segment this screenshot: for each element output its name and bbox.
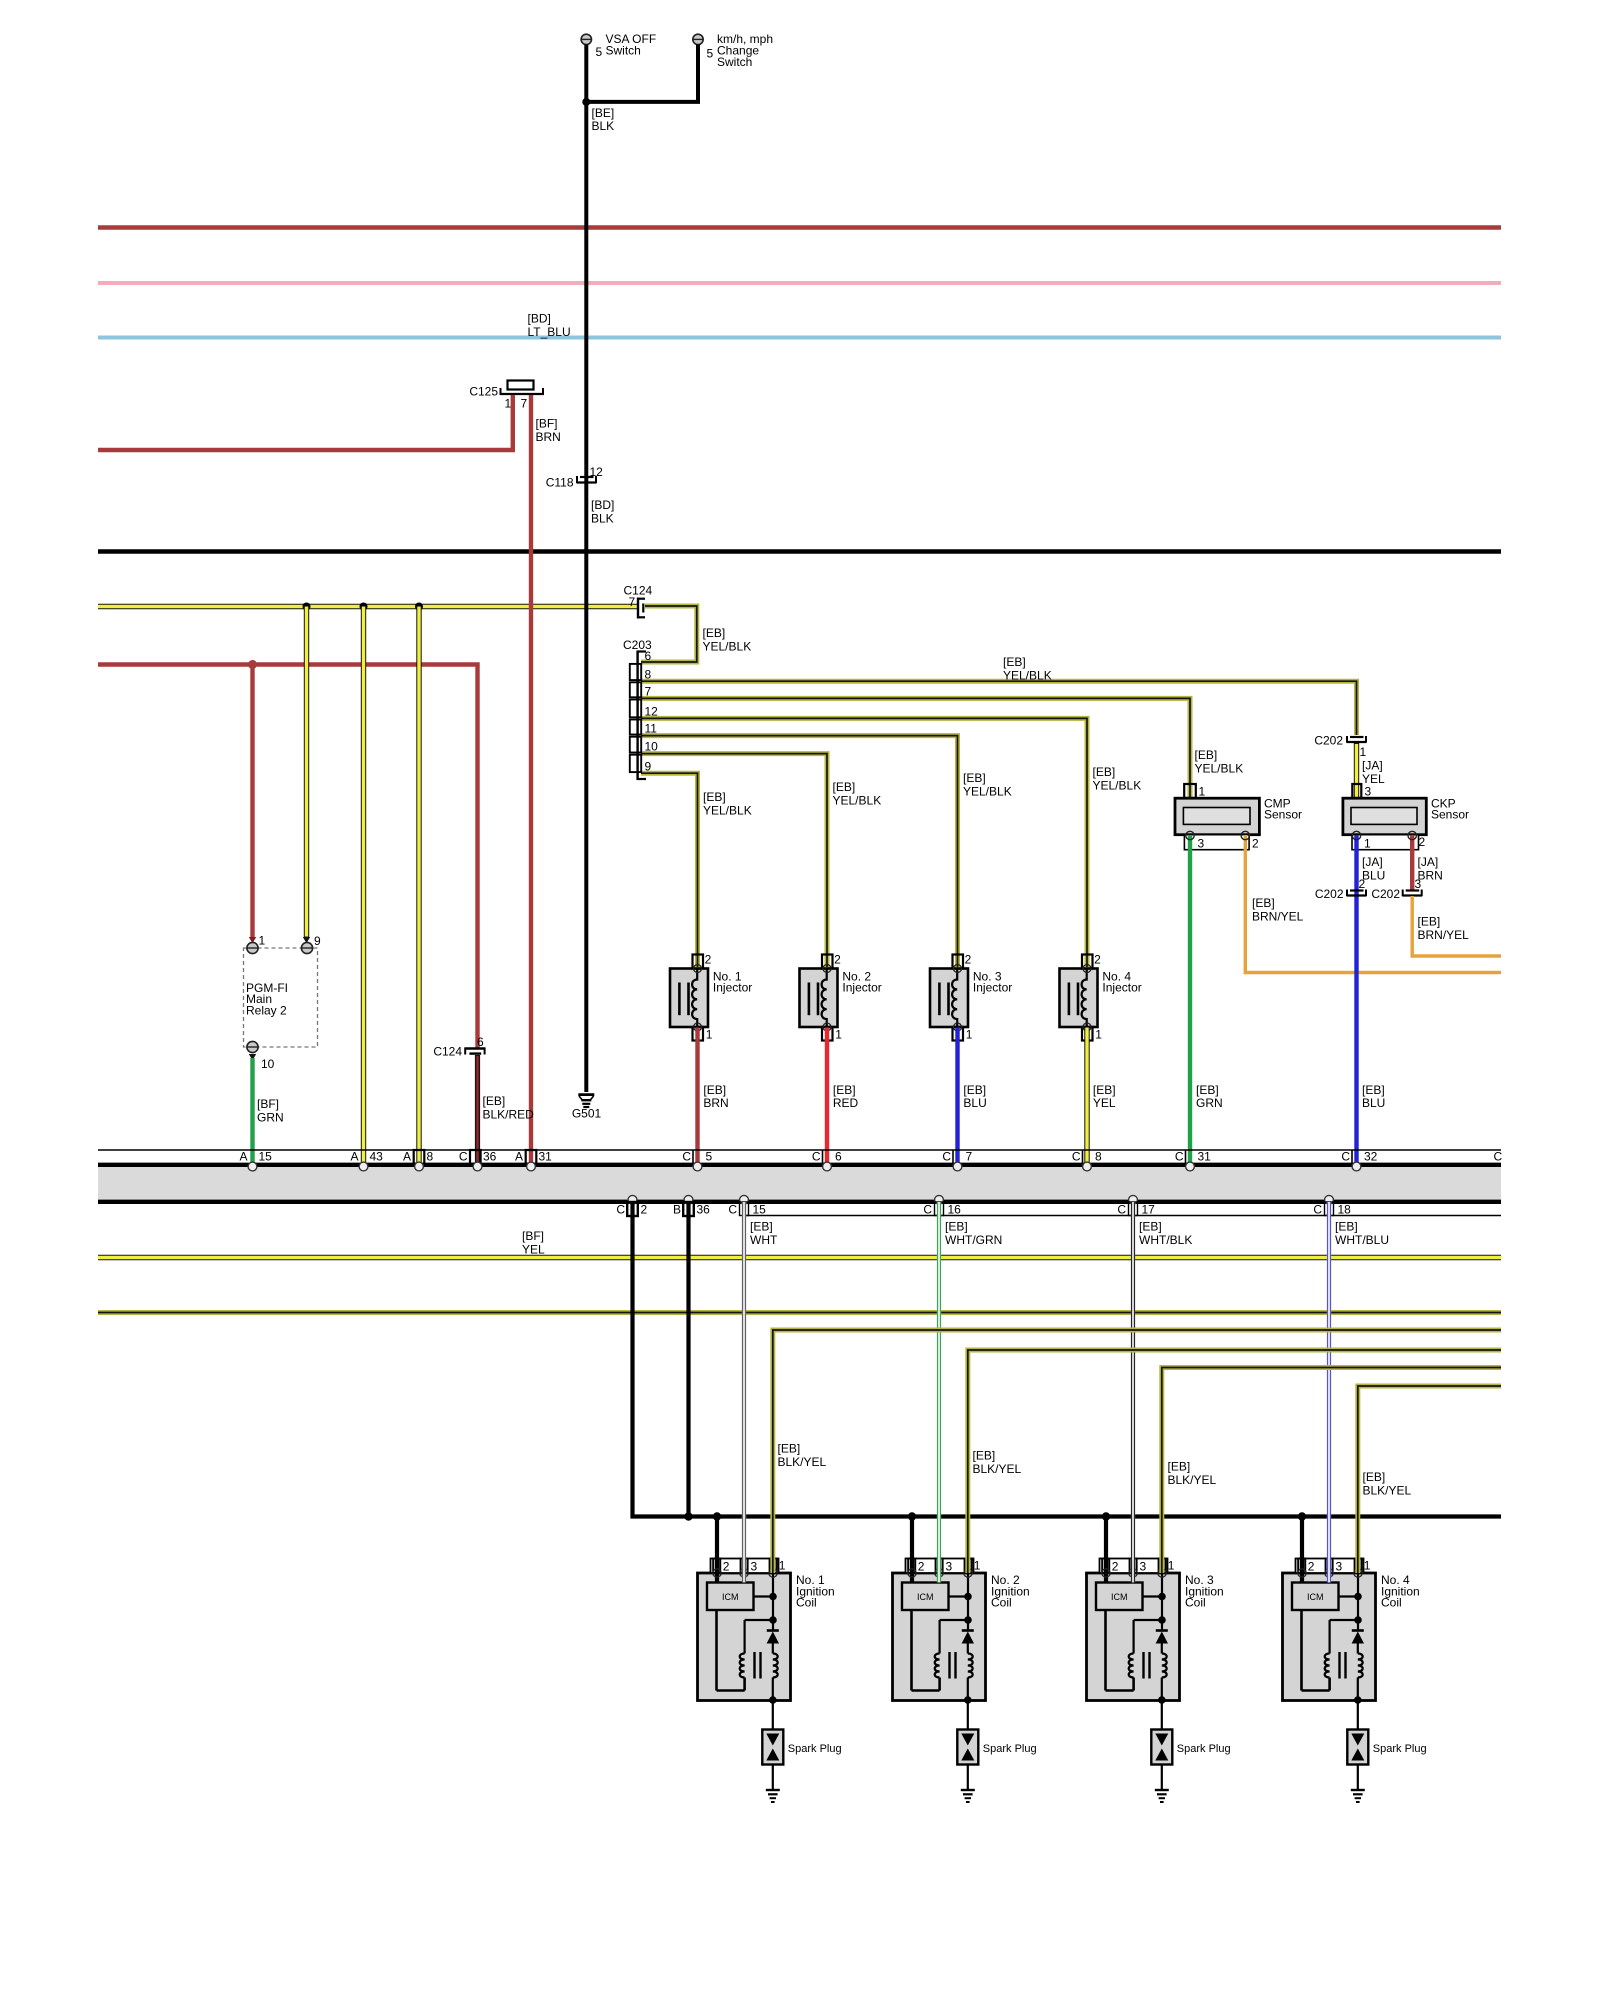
svg-text:C: C xyxy=(1072,1150,1081,1164)
wire YEL to ECM A43 xyxy=(361,607,366,1164)
wire [EB] WHT/GRN ECM C16 to coil2 pin3 xyxy=(937,1202,941,1583)
svg-text:BLU: BLU xyxy=(963,1096,986,1110)
wire horizontal bus BRN lower xyxy=(98,665,478,1050)
node junction red xyxy=(248,660,257,669)
svg-text:9: 9 xyxy=(645,760,652,774)
wire [EB] YEL/BLK C203 pin10 to injector 2 xyxy=(641,754,827,967)
connector C124 pin 6 xyxy=(433,1035,485,1059)
svg-text:5: 5 xyxy=(707,47,714,61)
svg-text:[EB]: [EB] xyxy=(483,1094,506,1108)
svg-text:BLK/YEL: BLK/YEL xyxy=(1168,1473,1217,1487)
wire [BE] BLK vertical to G501 xyxy=(584,102,588,1092)
terminal VSA OFF switch xyxy=(581,32,656,59)
wire horizontal bus [BD] LT_BLU xyxy=(98,336,1501,340)
wire [EB] BLK/YEL to coil4 pin1 xyxy=(1358,1386,1501,1573)
wire [EB] BRN/YEL CMP pin2 orange xyxy=(1245,835,1501,973)
svg-text:6: 6 xyxy=(477,1035,484,1049)
svg-text:YEL/BLK: YEL/BLK xyxy=(703,640,752,654)
svg-text:A: A xyxy=(403,1150,411,1164)
wire [EB] BRN/YEL CKP orange xyxy=(1412,896,1501,956)
svg-text:17: 17 xyxy=(1142,1203,1156,1217)
svg-text:C202: C202 xyxy=(1371,887,1400,901)
svg-text:36: 36 xyxy=(483,1150,497,1164)
connector C202 pin 3 xyxy=(1371,877,1422,901)
svg-text:[BF]: [BF] xyxy=(522,1229,544,1243)
wire [EB] BLK/YEL to coil3 pin1 xyxy=(1162,1368,1501,1574)
svg-text:8: 8 xyxy=(427,1150,434,1164)
svg-text:[JA]: [JA] xyxy=(1362,855,1383,869)
wire horizontal bus BLK xyxy=(98,549,1501,553)
wire [EB] WHT/BLU ECM C18 to coil4 pin3 xyxy=(1327,1202,1331,1583)
svg-text:Injector: Injector xyxy=(842,981,881,995)
wire [EB] WHT ECM C15 to coil1 pin3 xyxy=(742,1202,746,1583)
wire [JA] YEL C202 to CKP pin3 xyxy=(1354,743,1359,797)
svg-text:[EB]: [EB] xyxy=(1168,1460,1191,1474)
svg-text:[JA]: [JA] xyxy=(1418,855,1439,869)
wire [JA] BRN CKP pin2 xyxy=(1410,835,1414,890)
wire [EB] YEL/BLK C124 to C203 pin6 xyxy=(641,606,697,662)
svg-text:Spark Plug: Spark Plug xyxy=(788,1743,842,1755)
node junction xyxy=(582,98,590,106)
svg-text:[BD]: [BD] xyxy=(591,498,614,512)
wire [EB] WHT/BLK ECM C17 to coil3 pin3 xyxy=(1131,1202,1135,1583)
svg-text:Relay 2: Relay 2 xyxy=(246,1004,287,1018)
svg-text:[EB]: [EB] xyxy=(945,1220,968,1234)
svg-text:36: 36 xyxy=(697,1203,711,1217)
injector No.1 xyxy=(670,953,713,1042)
svg-text:1: 1 xyxy=(1364,837,1371,851)
svg-text:YEL/BLK: YEL/BLK xyxy=(1093,779,1142,793)
wire [EB] BLK/RED to ECM C36 xyxy=(475,1055,480,1163)
ECM pin C31 xyxy=(1185,1150,1187,1164)
svg-text:5: 5 xyxy=(596,45,603,59)
svg-text:[EB]: [EB] xyxy=(1335,1220,1358,1234)
wire [EB] YEL/BLK C203 pin11 to injector 3 xyxy=(641,736,958,967)
svg-text:1: 1 xyxy=(1360,745,1367,759)
svg-text:BRN: BRN xyxy=(1418,869,1443,883)
svg-text:G501: G501 xyxy=(572,1107,602,1121)
ECM pin C15 xyxy=(740,1195,749,1204)
connector C124 pin 7 xyxy=(624,584,653,619)
ECM pin C17 xyxy=(1129,1195,1138,1204)
connector C202 pin 1 xyxy=(1314,734,1366,760)
ground G501 xyxy=(572,1095,602,1121)
svg-text:2: 2 xyxy=(641,1203,648,1217)
svg-text:[EB]: [EB] xyxy=(1093,1083,1116,1097)
ECM pin C7 xyxy=(952,1150,954,1164)
node CMP pin circles xyxy=(1186,831,1194,839)
svg-text:Injector: Injector xyxy=(1102,981,1141,995)
svg-text:7: 7 xyxy=(645,685,652,699)
sensor CMP xyxy=(1175,784,1302,851)
svg-text:[EB]: [EB] xyxy=(963,771,986,785)
svg-text:12: 12 xyxy=(590,465,604,479)
svg-text:C: C xyxy=(1313,1203,1322,1217)
svg-text:3: 3 xyxy=(1365,785,1372,799)
svg-text:BLK/YEL: BLK/YEL xyxy=(973,1462,1022,1476)
svg-text:C124: C124 xyxy=(433,1045,462,1059)
svg-text:7: 7 xyxy=(966,1150,973,1164)
svg-text:YEL: YEL xyxy=(1093,1096,1116,1110)
svg-text:A: A xyxy=(350,1150,358,1164)
svg-text:31: 31 xyxy=(1198,1150,1212,1164)
svg-text:Sensor: Sensor xyxy=(1431,808,1469,822)
svg-text:3: 3 xyxy=(1198,837,1205,851)
ECM pin C2 xyxy=(628,1195,637,1204)
svg-text:[EB]: [EB] xyxy=(1139,1220,1162,1234)
svg-text:Spark Plug: Spark Plug xyxy=(1373,1743,1427,1755)
ECM pin C5 xyxy=(692,1150,694,1164)
svg-text:GRN: GRN xyxy=(257,1111,284,1125)
svg-text:BRN/YEL: BRN/YEL xyxy=(1252,910,1304,924)
wire [BF] YEL lower bus xyxy=(98,1255,1501,1260)
svg-text:2: 2 xyxy=(1252,837,1259,851)
wire C125 pin7 [BF] BRN to ECM A31 xyxy=(529,395,533,1163)
svg-text:12: 12 xyxy=(645,705,659,719)
wire [EB] YEL/BLK C203 pin7 to CMP xyxy=(641,698,1190,797)
wire switch drops BLK xyxy=(586,45,698,102)
svg-text:BLK/YEL: BLK/YEL xyxy=(1363,1484,1412,1498)
wire horizontal bus [BF] YEL upper xyxy=(98,604,638,609)
svg-text:15: 15 xyxy=(753,1203,767,1217)
wire YEL to relay pin 9 xyxy=(304,607,309,938)
svg-text:C: C xyxy=(728,1203,737,1217)
wire [BF] GRN relay pin10 to ECM A15 xyxy=(249,1054,256,1060)
svg-text:A: A xyxy=(239,1150,247,1164)
sensor CKP xyxy=(1343,784,1469,851)
svg-text:7: 7 xyxy=(629,595,636,609)
svg-text:C: C xyxy=(1341,1150,1350,1164)
svg-text:GRN: GRN xyxy=(1196,1096,1223,1110)
svg-text:[EB]: [EB] xyxy=(703,790,726,804)
svg-text:[EB]: [EB] xyxy=(1093,765,1116,779)
svg-text:[EB]: [EB] xyxy=(750,1220,773,1234)
wire BRN to relay pin 1 xyxy=(250,665,254,938)
wire [EB] BLU injector3 to ECM C7 xyxy=(955,1028,959,1164)
injector No.2 xyxy=(800,953,843,1042)
wire [EB] YEL injector4 to ECM C8 xyxy=(1084,1028,1089,1164)
svg-text:[EB]: [EB] xyxy=(833,780,856,794)
svg-text:C: C xyxy=(1117,1203,1126,1217)
ECM pin C18 xyxy=(1325,1195,1334,1204)
ignition coil No.4 xyxy=(1283,1512,1376,1802)
svg-text:BRN: BRN xyxy=(536,430,561,444)
svg-text:C: C xyxy=(459,1150,468,1164)
svg-text:10: 10 xyxy=(645,740,659,754)
svg-text:YEL/BLK: YEL/BLK xyxy=(703,804,752,818)
svg-text:[BD]: [BD] xyxy=(528,312,551,326)
svg-text:5: 5 xyxy=(706,1150,713,1164)
svg-text:11: 11 xyxy=(645,722,658,736)
connector C202 pin 2 xyxy=(1315,877,1367,901)
svg-text:8: 8 xyxy=(1095,1150,1102,1164)
wire horizontal bus BRN xyxy=(98,225,1501,229)
svg-text:LT_BLU: LT_BLU xyxy=(528,325,571,339)
svg-text:BLK: BLK xyxy=(592,119,615,133)
wire [EB] BRN injector1 to ECM C5 xyxy=(695,1028,699,1164)
svg-text:1: 1 xyxy=(505,397,512,411)
svg-text:C: C xyxy=(923,1203,932,1217)
svg-text:Coil: Coil xyxy=(1185,1596,1206,1610)
svg-text:WHT/BLK: WHT/BLK xyxy=(1139,1233,1192,1247)
svg-text:Coil: Coil xyxy=(1381,1596,1402,1610)
svg-text:WHT/GRN: WHT/GRN xyxy=(945,1233,1002,1247)
ignition coil No.1 xyxy=(698,1512,791,1802)
svg-text:BLK: BLK xyxy=(591,512,614,526)
svg-text:43: 43 xyxy=(370,1150,384,1164)
svg-text:31: 31 xyxy=(539,1150,553,1164)
svg-text:2: 2 xyxy=(1419,835,1426,849)
svg-text:[EB]: [EB] xyxy=(1252,896,1275,910)
svg-text:[EB]: [EB] xyxy=(833,1083,856,1097)
wire YEL to ECM A8 xyxy=(416,607,421,1164)
svg-text:Coil: Coil xyxy=(991,1596,1012,1610)
svg-text:[BF]: [BF] xyxy=(257,1097,279,1111)
relay PGM-FI Main Relay 2 xyxy=(244,934,322,1072)
svg-text:C: C xyxy=(1494,1150,1503,1164)
svg-text:16: 16 xyxy=(948,1203,962,1217)
svg-text:Injector: Injector xyxy=(713,981,752,995)
svg-text:Coil: Coil xyxy=(796,1596,817,1610)
svg-text:1: 1 xyxy=(1199,785,1206,799)
svg-text:C: C xyxy=(942,1150,951,1164)
svg-text:[EB]: [EB] xyxy=(703,1083,726,1097)
svg-text:15: 15 xyxy=(259,1150,273,1164)
svg-text:[JA]: [JA] xyxy=(1362,759,1383,773)
node junction yellow bus x363.5 xyxy=(360,603,368,611)
wire [EB] YEL/BLK C203 pin12 to injector 4 xyxy=(641,718,1087,967)
svg-text:BLK/RED: BLK/RED xyxy=(483,1108,535,1122)
ECM pin C32 xyxy=(1351,1150,1353,1164)
svg-text:2: 2 xyxy=(1359,877,1366,891)
svg-text:C: C xyxy=(682,1150,691,1164)
svg-text:C125: C125 xyxy=(469,385,498,399)
ECM pin B36 xyxy=(684,1195,693,1204)
svg-text:[EB]: [EB] xyxy=(703,626,726,640)
svg-text:9: 9 xyxy=(314,934,321,948)
svg-text:BLK/YEL: BLK/YEL xyxy=(778,1455,827,1469)
wire [JA]/[EB] BLU CKP pin1 to ECM C32 xyxy=(1354,835,1358,1163)
svg-text:YEL: YEL xyxy=(522,1243,545,1257)
ECM pin A8 xyxy=(414,1150,425,1164)
svg-text:C202: C202 xyxy=(1314,734,1343,748)
svg-text:Spark Plug: Spark Plug xyxy=(983,1743,1037,1755)
svg-text:YEL/BLK: YEL/BLK xyxy=(833,794,882,808)
svg-text:C: C xyxy=(616,1203,625,1217)
svg-text:WHT: WHT xyxy=(750,1233,778,1247)
injector No.4 xyxy=(1060,953,1103,1042)
svg-text:[EB]: [EB] xyxy=(778,1442,801,1456)
svg-text:[EB]: [EB] xyxy=(1362,1083,1385,1097)
wire [EB] RED injector2 to ECM C6 xyxy=(825,1028,829,1164)
svg-text:32: 32 xyxy=(1364,1150,1378,1164)
svg-text:[EB]: [EB] xyxy=(963,1083,986,1097)
connector C118 pin 12 xyxy=(546,465,603,490)
svg-text:C118: C118 xyxy=(546,476,574,490)
svg-text:YEL/BLK: YEL/BLK xyxy=(963,785,1012,799)
svg-text:BLU: BLU xyxy=(1362,1096,1385,1110)
svg-text:B: B xyxy=(673,1203,681,1217)
svg-text:10: 10 xyxy=(261,1057,275,1071)
svg-text:Sensor: Sensor xyxy=(1264,808,1302,822)
connector C125 xyxy=(469,381,543,411)
ECM pin A43 xyxy=(359,1162,368,1171)
ECM pin C36 xyxy=(470,1150,481,1164)
wire [EB] BLK/YEL to coil1 pin1 xyxy=(773,1330,1501,1573)
svg-text:7: 7 xyxy=(521,397,528,411)
wire [EB] BLK/YEL to coil2 pin1 xyxy=(968,1350,1501,1573)
svg-text:6: 6 xyxy=(645,649,652,663)
svg-text:A: A xyxy=(515,1150,523,1164)
node junction yellow bus x419 xyxy=(415,603,423,611)
svg-text:Injector: Injector xyxy=(973,981,1012,995)
node CKP pin circles xyxy=(1352,831,1360,839)
svg-text:[BF]: [BF] xyxy=(536,417,558,431)
svg-text:BRN/YEL: BRN/YEL xyxy=(1418,928,1470,942)
wire BLK ECM C2 to coil bus xyxy=(633,1202,1502,1517)
ECM/PCM connector bar xyxy=(98,1150,1501,1216)
svg-text:C: C xyxy=(1175,1150,1184,1164)
ECM pin C8 xyxy=(1082,1150,1084,1164)
ECM pin C6 xyxy=(822,1150,824,1164)
svg-text:1: 1 xyxy=(259,934,266,948)
ECM pin C16 xyxy=(935,1195,944,1204)
svg-text:[EB]: [EB] xyxy=(1363,1470,1386,1484)
wire BLK/YEL lower bus xyxy=(98,1310,1501,1315)
svg-text:[EB]: [EB] xyxy=(1003,655,1026,669)
connector C203 xyxy=(623,638,658,780)
svg-text:6: 6 xyxy=(835,1150,842,1164)
svg-text:[EB]: [EB] xyxy=(973,1449,996,1463)
svg-text:BLU: BLU xyxy=(1362,869,1385,883)
node junction yellow bus x306.5 xyxy=(303,603,311,611)
wire [EB] YEL/BLK C203 pin8 to C202/CKP xyxy=(641,681,1357,735)
ECM pin A15 xyxy=(248,1162,257,1171)
svg-text:18: 18 xyxy=(1338,1203,1352,1217)
svg-text:3: 3 xyxy=(1415,877,1422,891)
svg-text:[EB]: [EB] xyxy=(1195,748,1218,762)
svg-text:[BE]: [BE] xyxy=(592,106,615,120)
svg-text:YEL/BLK: YEL/BLK xyxy=(1003,669,1052,683)
svg-text:C: C xyxy=(812,1150,821,1164)
svg-text:WHT/BLU: WHT/BLU xyxy=(1335,1233,1389,1247)
svg-text:Switch: Switch xyxy=(717,55,752,69)
wire BLK ECM B36 to coil bus xyxy=(686,1202,690,1517)
svg-text:Spark Plug: Spark Plug xyxy=(1177,1743,1231,1755)
svg-text:BRN: BRN xyxy=(703,1096,728,1110)
svg-text:8: 8 xyxy=(645,668,652,682)
wire C125 pin1 BRN xyxy=(98,395,513,450)
wire [EB] GRN CMP pin3 to ECM C31 xyxy=(1188,835,1192,1163)
ignition coil No.2 xyxy=(893,1512,986,1802)
svg-text:Switch: Switch xyxy=(606,44,641,58)
wire horizontal bus PNK xyxy=(98,281,1501,285)
injector No.3 xyxy=(930,953,973,1042)
svg-text:[EB]: [EB] xyxy=(1196,1083,1219,1097)
svg-text:YEL/BLK: YEL/BLK xyxy=(1195,762,1244,776)
svg-text:C202: C202 xyxy=(1315,887,1344,901)
svg-text:RED: RED xyxy=(833,1096,859,1110)
wire [EB] YEL/BLK C203 pin9 to injector 1 xyxy=(641,773,698,967)
svg-text:[EB]: [EB] xyxy=(1418,915,1441,929)
ignition coil No.3 xyxy=(1087,1512,1180,1802)
ECM pin A31 xyxy=(526,1150,537,1164)
terminal km/h mph change switch xyxy=(693,32,773,69)
